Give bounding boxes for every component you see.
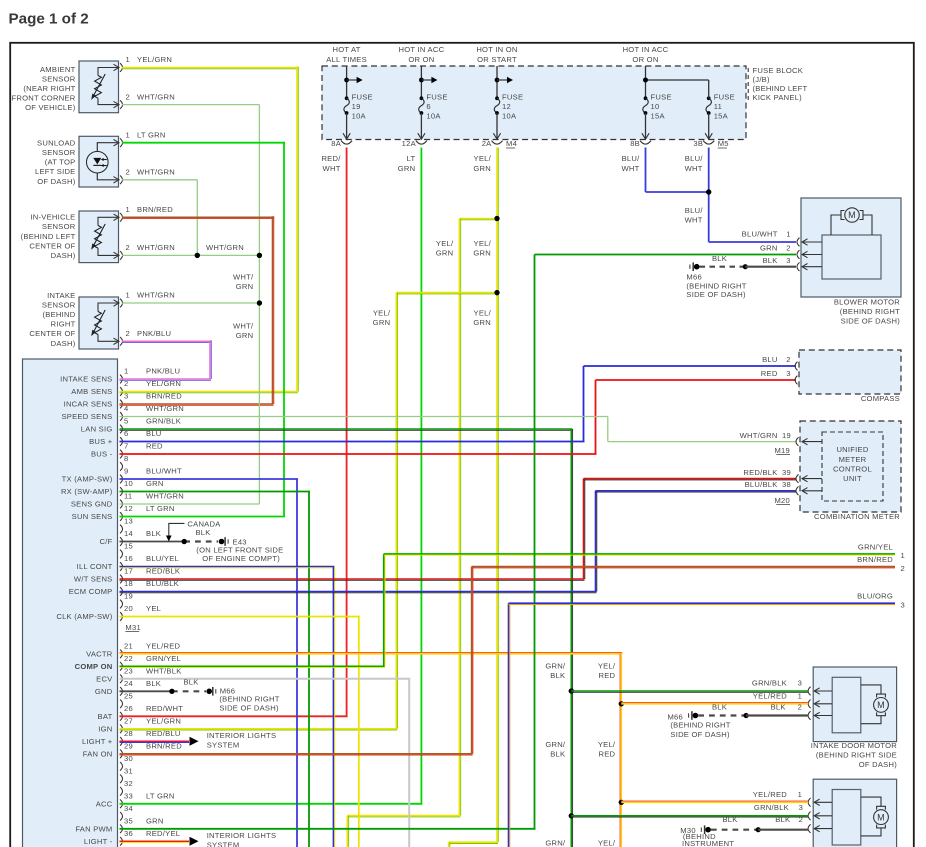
svg-text:21: 21 xyxy=(124,642,133,651)
wire PNK/BLU intake pin2 to control pin1 xyxy=(122,340,211,342)
svg-text:VACTR: VACTR xyxy=(86,649,113,658)
svg-text:C/F: C/F xyxy=(100,537,113,546)
svg-text:HOT IN ACC: HOT IN ACC xyxy=(398,45,444,54)
svg-text:BUS +: BUS + xyxy=(89,437,113,446)
svg-text:PNK/BLU: PNK/BLU xyxy=(137,329,171,338)
wire GRN/BLK to intake door motor pin3 xyxy=(571,690,808,692)
wire YEL/GRN main jog to page bottom xyxy=(449,841,498,843)
svg-text:LAN SIG: LAN SIG xyxy=(81,425,113,434)
svg-text:YEL/: YEL/ xyxy=(598,662,616,671)
svg-text:3: 3 xyxy=(799,803,803,812)
svg-text:2: 2 xyxy=(126,168,130,177)
svg-text:SENSOR: SENSOR xyxy=(42,300,76,309)
svg-text:2: 2 xyxy=(126,243,130,252)
connector arc at fuse block exit xyxy=(341,141,352,145)
blower pin 1 connector xyxy=(797,238,800,247)
control head pin 4 connector xyxy=(120,412,123,421)
wire YEL/RED to air mix door motor pin1 xyxy=(621,801,808,803)
svg-text:WHT/GRN: WHT/GRN xyxy=(137,243,175,252)
svg-text:YEL/RED: YEL/RED xyxy=(753,691,788,700)
svg-text:BLK: BLK xyxy=(762,256,777,265)
svg-text:2: 2 xyxy=(126,329,130,338)
svg-text:SENS GND: SENS GND xyxy=(71,500,113,509)
wire BLU/BLK control pin18 ECM COMP to meter pin38 xyxy=(120,591,597,593)
svg-text:RED/BLK: RED/BLK xyxy=(743,468,777,477)
svg-text:3: 3 xyxy=(798,679,802,688)
wire BLK control pin14 C/F with CANADA tap to E43 xyxy=(120,541,185,543)
svg-text:FUSE: FUSE xyxy=(714,92,735,101)
svg-text:RED: RED xyxy=(599,671,616,680)
svg-text:RED/: RED/ xyxy=(321,154,341,163)
svg-text:SIDE OF DASH): SIDE OF DASH) xyxy=(841,317,901,326)
svg-text:CENTER OF: CENTER OF xyxy=(29,329,75,338)
control head pin 27 connector xyxy=(120,725,123,734)
junction dot xyxy=(257,253,262,258)
control head pin 19 connector xyxy=(120,600,123,609)
svg-text:YEL/: YEL/ xyxy=(436,239,454,248)
hot feed + fuse 11 column xyxy=(707,96,711,100)
svg-text:5: 5 xyxy=(124,417,128,426)
svg-text:20: 20 xyxy=(124,604,133,613)
svg-text:6: 6 xyxy=(426,102,430,111)
junction dot YEL/RED intake door xyxy=(619,701,624,706)
svg-text:YEL/RED: YEL/RED xyxy=(146,642,181,651)
in-vehicle sensor xyxy=(79,211,119,263)
svg-text:FAN PWM: FAN PWM xyxy=(75,824,112,833)
svg-text:TX (AMP-SW): TX (AMP-SW) xyxy=(62,475,113,484)
svg-text:OR ON: OR ON xyxy=(632,55,658,64)
svg-text:8: 8 xyxy=(124,454,128,463)
wire BLU/WHT control pin9 TX down xyxy=(120,478,299,480)
control head pin 7 connector xyxy=(120,450,123,459)
svg-text:GRN: GRN xyxy=(473,248,491,257)
control head pin 2 connector xyxy=(120,387,123,396)
svg-text:IGN: IGN xyxy=(98,724,112,733)
svg-text:YEL: YEL xyxy=(146,604,161,613)
svg-text:HOT AT: HOT AT xyxy=(332,45,360,54)
svg-text:1: 1 xyxy=(126,55,130,64)
wire YEL/GRN branch1 jog to page bottom xyxy=(347,815,460,817)
svg-text:FUSE: FUSE xyxy=(352,92,373,101)
svg-text:BLU/WHT: BLU/WHT xyxy=(146,467,182,476)
svg-text:39: 39 xyxy=(782,468,791,477)
svg-text:WHT/GRN: WHT/GRN xyxy=(740,431,778,440)
control head pin 15 connector xyxy=(120,550,123,559)
svg-text:M: M xyxy=(848,210,856,220)
svg-text:M66: M66 xyxy=(686,273,702,282)
svg-text:GND: GND xyxy=(95,687,113,696)
svg-text:WHT/GRN: WHT/GRN xyxy=(206,243,244,252)
blower motor inner unit xyxy=(822,235,881,279)
svg-text:WHT: WHT xyxy=(621,164,639,173)
svg-text:UNIFIED: UNIFIED xyxy=(836,445,868,454)
wire GRN/BLK control pin5 mode bus xyxy=(120,428,573,430)
wire WHT/BLK control pin23 ECV down xyxy=(120,678,411,680)
wire GRN control pin10 RX down xyxy=(120,491,311,493)
wire BLU/YEL control pin16 ILL CONT down xyxy=(120,566,335,568)
svg-text:WHT/: WHT/ xyxy=(233,322,254,331)
svg-text:YEL/: YEL/ xyxy=(598,838,616,847)
control head pin 6 connector xyxy=(120,437,123,446)
svg-text:GRN: GRN xyxy=(236,331,254,340)
svg-text:2A: 2A xyxy=(482,139,492,148)
svg-text:BLU/: BLU/ xyxy=(685,206,704,215)
wire RED/BLK control pin17 W/T SENS to meter pin39 xyxy=(120,578,585,580)
control head pin 34 connector xyxy=(120,812,123,821)
wire YEL/GRN branch2 to control pin27 IGN xyxy=(395,293,397,729)
combination meter box xyxy=(800,421,901,512)
wire WHT/GRN in-vehicle pin2 with junctions xyxy=(122,254,259,256)
A/C control head box xyxy=(23,359,118,847)
control head pin 3 connector xyxy=(120,400,123,409)
svg-text:9: 9 xyxy=(124,467,128,476)
junction dot intake pin1 xyxy=(257,300,262,305)
svg-text:IN-VEHICLE: IN-VEHICLE xyxy=(30,213,75,222)
svg-text:GRN: GRN xyxy=(398,164,416,173)
svg-text:WHT/GRN: WHT/GRN xyxy=(146,492,184,501)
svg-text:38: 38 xyxy=(782,480,791,489)
wire GRN control pin35 FAN PWM to blower pin2 xyxy=(120,828,536,830)
wire RED/WHT fuse19 to control pin26 BAT xyxy=(346,148,348,717)
svg-text:1: 1 xyxy=(126,205,130,214)
svg-text:7: 7 xyxy=(124,442,128,451)
junction dot BLK xyxy=(744,713,749,718)
svg-text:COMPASS: COMPASS xyxy=(861,394,900,403)
svg-text:WHT/GRN: WHT/GRN xyxy=(137,168,175,177)
wire BLK control pin24 GND to M66 xyxy=(120,690,172,692)
wire YEL/GRN ambient pin1 to control pin2 xyxy=(122,67,298,69)
svg-text:15A: 15A xyxy=(651,111,666,120)
svg-text:2: 2 xyxy=(126,92,130,101)
meter pin 19 connector xyxy=(796,437,799,446)
svg-text:SIDE OF DASH): SIDE OF DASH) xyxy=(219,703,279,712)
svg-text:LT GRN: LT GRN xyxy=(146,792,175,801)
svg-text:26: 26 xyxy=(124,704,133,713)
control head pin 8 connector xyxy=(120,462,123,471)
wire BLU/ORG east exit 3 xyxy=(508,603,510,847)
svg-text:M: M xyxy=(877,812,885,822)
svg-text:19: 19 xyxy=(782,431,791,440)
svg-text:LT GRN: LT GRN xyxy=(146,504,175,513)
svg-text:SIDE OF DASH): SIDE OF DASH) xyxy=(670,730,730,739)
svg-text:31: 31 xyxy=(124,767,133,776)
svg-text:COMBINATION METER: COMBINATION METER xyxy=(814,512,900,521)
control head pin 22 connector xyxy=(120,662,123,671)
svg-text:16: 16 xyxy=(124,554,133,563)
svg-text:PNK/BLU: PNK/BLU xyxy=(146,367,180,376)
svg-text:LIGHT +: LIGHT + xyxy=(82,737,113,746)
svg-text:3B: 3B xyxy=(693,139,703,148)
svg-text:AMB SENS: AMB SENS xyxy=(71,387,112,396)
svg-text:BLU/ORG: BLU/ORG xyxy=(857,592,893,601)
svg-text:3: 3 xyxy=(786,369,790,378)
svg-text:(BEHIND LEFT: (BEHIND LEFT xyxy=(753,84,808,93)
svg-text:M5: M5 xyxy=(718,139,729,148)
svg-text:22: 22 xyxy=(124,654,133,663)
svg-text:SYSTEM: SYSTEM xyxy=(207,741,240,750)
svg-text:32: 32 xyxy=(124,779,133,788)
svg-text:METER: METER xyxy=(839,455,867,464)
svg-text:33: 33 xyxy=(124,792,133,801)
svg-text:FUSE: FUSE xyxy=(426,92,447,101)
ground connector E43 symbol xyxy=(219,539,225,545)
svg-text:BLK: BLK xyxy=(712,254,727,263)
compass pin 3 connector xyxy=(795,376,798,385)
wire WHT/GRN ambient pin2 down xyxy=(122,104,259,106)
junction dot YEL/GRN branch1 xyxy=(494,216,499,221)
svg-text:1: 1 xyxy=(901,551,905,560)
control head pin 33 connector xyxy=(120,800,123,809)
svg-text:Page 1 of 2: Page 1 of 2 xyxy=(9,11,89,28)
wire BRN/RED control pin29 FAN ON to east exit 2 xyxy=(120,753,473,755)
svg-text:RED/YEL: RED/YEL xyxy=(146,829,180,838)
svg-text:13: 13 xyxy=(124,517,133,526)
svg-text:LIGHT -: LIGHT - xyxy=(84,837,113,846)
unified meter control unit box xyxy=(822,432,883,501)
CANADA flag marker xyxy=(169,523,185,537)
control head pin 5 connector xyxy=(120,425,123,434)
junction dot BLK xyxy=(756,827,761,832)
svg-text:24: 24 xyxy=(124,679,133,688)
svg-text:DASH): DASH) xyxy=(51,251,76,260)
svg-text:ECV: ECV xyxy=(96,674,113,683)
control head pin 25 connector xyxy=(120,700,123,709)
svg-text:3: 3 xyxy=(901,601,905,610)
svg-text:27: 27 xyxy=(124,717,133,726)
intake sensor xyxy=(79,297,119,349)
connector arc at fuse block exit xyxy=(703,141,714,145)
svg-text:SUNLOAD: SUNLOAD xyxy=(37,138,76,147)
svg-text:BLK: BLK xyxy=(771,702,786,711)
svg-text:COMP ON: COMP ON xyxy=(75,662,113,671)
svg-text:11: 11 xyxy=(714,102,722,111)
wire LT GRN sunload pin1 to control pin12 xyxy=(122,142,285,144)
svg-text:10: 10 xyxy=(124,479,133,488)
wire GRN/YEL control pin22 COMP ON to east exit 1 xyxy=(120,665,385,667)
svg-text:19: 19 xyxy=(352,102,361,111)
svg-text:YEL/: YEL/ xyxy=(474,308,492,317)
svg-text:KICK PANEL): KICK PANEL) xyxy=(753,93,803,102)
svg-text:BLK: BLK xyxy=(195,528,210,537)
svg-text:GRN/BLK: GRN/BLK xyxy=(752,679,787,688)
svg-text:BLK: BLK xyxy=(712,702,727,711)
svg-text:8B: 8B xyxy=(630,139,640,148)
svg-text:INCAR SENS: INCAR SENS xyxy=(64,400,113,409)
svg-text:GRN/: GRN/ xyxy=(545,740,566,749)
control head pin 12 connector xyxy=(120,512,123,521)
svg-text:11: 11 xyxy=(124,492,132,501)
svg-text:34: 34 xyxy=(124,804,133,813)
svg-text:BLK: BLK xyxy=(722,815,737,824)
control head pin 29 connector xyxy=(120,750,123,759)
wire RED control pin7 BUS- to compass xyxy=(120,453,597,455)
wire WHT/GRN intake pin1 xyxy=(122,302,259,304)
wire YEL control pin20 CLK down xyxy=(120,616,360,618)
svg-text:GRN: GRN xyxy=(146,817,164,826)
wire RED/YEL control pin36 LIGHT- to interior lights xyxy=(120,840,190,842)
svg-text:SENSOR: SENSOR xyxy=(42,74,76,83)
svg-text:ECM COMP: ECM COMP xyxy=(69,587,113,596)
wire RED/BLU control pin28 LIGHT+ to interior lights xyxy=(120,740,190,742)
wire WHT/GRN sunload pin2 down xyxy=(122,179,197,181)
blower pin 3 connector + BLK ground wire xyxy=(797,262,800,271)
control head pin 23 connector xyxy=(120,675,123,684)
svg-text:GRN: GRN xyxy=(236,282,254,291)
svg-text:BLK: BLK xyxy=(146,529,161,538)
svg-text:UNIT: UNIT xyxy=(843,474,862,483)
svg-text:FRONT CORNER: FRONT CORNER xyxy=(11,94,75,103)
ambient sensor xyxy=(79,61,119,113)
svg-text:SUN SENS: SUN SENS xyxy=(72,512,113,521)
svg-text:(NEAR RIGHT: (NEAR RIGHT xyxy=(23,84,75,93)
wire GRN/BLK to air mix door motor pin3 xyxy=(571,815,808,817)
junction dot YEL/GRN branch2 xyxy=(494,290,499,295)
wire YEL/GRN branch1 vertical xyxy=(458,219,460,816)
svg-text:8A: 8A xyxy=(331,139,341,148)
svg-text:GRN/: GRN/ xyxy=(545,662,566,671)
svg-text:12: 12 xyxy=(502,102,511,111)
svg-text:1: 1 xyxy=(798,691,802,700)
svg-text:WHT/: WHT/ xyxy=(233,272,254,281)
svg-text:FAN ON: FAN ON xyxy=(83,749,113,758)
meter pin 39 connector xyxy=(796,474,799,483)
wire WHT/GRN vertical sens-gnd bus xyxy=(258,255,260,504)
svg-text:GRN: GRN xyxy=(473,164,491,173)
svg-text:AMBIENT: AMBIENT xyxy=(40,65,76,74)
svg-text:M4: M4 xyxy=(506,139,517,148)
svg-text:1: 1 xyxy=(126,291,130,300)
svg-text:14: 14 xyxy=(124,529,133,538)
control head pin 32 connector xyxy=(120,787,123,796)
connector arc at fuse block exit xyxy=(416,141,427,145)
control head pin 28 connector xyxy=(120,737,123,746)
svg-text:HOT IN ACC: HOT IN ACC xyxy=(623,45,669,54)
svg-text:WHT/GRN: WHT/GRN xyxy=(137,92,175,101)
svg-text:BRN/RED: BRN/RED xyxy=(857,555,893,564)
wire BRN/RED in-vehicle pin1 to control pin3 xyxy=(122,216,274,218)
junction dot xyxy=(195,253,200,258)
svg-text:RED: RED xyxy=(599,750,616,759)
svg-text:1: 1 xyxy=(124,367,128,376)
svg-text:(BEHIND RIGHT SIDE: (BEHIND RIGHT SIDE xyxy=(816,750,897,759)
svg-text:YEL/: YEL/ xyxy=(598,740,616,749)
svg-text:BLOWER MOTOR: BLOWER MOTOR xyxy=(834,298,900,307)
svg-text:BRN/RED: BRN/RED xyxy=(137,205,173,214)
svg-text:SPEED SENS: SPEED SENS xyxy=(61,412,112,421)
svg-text:RED: RED xyxy=(761,369,778,378)
control head pin 35 connector xyxy=(120,825,123,834)
svg-text:(BEHIND: (BEHIND xyxy=(43,310,76,319)
svg-text:GRN: GRN xyxy=(146,479,164,488)
svg-text:INSTRUMENT: INSTRUMENT xyxy=(682,839,734,847)
svg-text:15A: 15A xyxy=(714,111,729,120)
control head pin 9 connector xyxy=(120,475,123,484)
svg-text:(BEHIND RIGHT: (BEHIND RIGHT xyxy=(840,307,900,316)
svg-text:RIGHT: RIGHT xyxy=(51,320,76,329)
svg-text:FUSE BLOCK: FUSE BLOCK xyxy=(753,66,804,75)
wire BLU control pin6 BUS+ to compass xyxy=(120,441,585,443)
svg-text:10A: 10A xyxy=(352,111,367,120)
svg-text:SIDE OF DASH): SIDE OF DASH) xyxy=(686,290,746,299)
svg-text:BLK: BLK xyxy=(183,678,198,687)
control head pin 21 connector xyxy=(120,650,123,659)
svg-text:INTAKE: INTAKE xyxy=(47,291,75,300)
svg-text:LT GRN: LT GRN xyxy=(137,130,166,139)
svg-text:M31: M31 xyxy=(125,623,141,632)
svg-text:CLK (AMP-SW): CLK (AMP-SW) xyxy=(56,612,112,621)
junction dot GRN/BLK air mix xyxy=(569,813,574,818)
svg-text:25: 25 xyxy=(124,692,133,701)
svg-text:10: 10 xyxy=(651,102,660,111)
svg-text:BLU/: BLU/ xyxy=(685,154,704,163)
wire YEL/RED to intake door motor pin1 xyxy=(621,703,808,705)
svg-text:BLK: BLK xyxy=(550,750,565,759)
svg-text:LT: LT xyxy=(407,154,416,163)
svg-text:M19: M19 xyxy=(774,446,790,455)
svg-text:OR START: OR START xyxy=(477,55,517,64)
svg-text:HOT IN ON: HOT IN ON xyxy=(476,45,517,54)
svg-text:1: 1 xyxy=(798,790,802,799)
svg-text:YEL/GRN: YEL/GRN xyxy=(146,717,181,726)
blower pin 2 connector xyxy=(797,250,800,259)
svg-text:GRN: GRN xyxy=(473,318,491,327)
fuse block label tick xyxy=(747,68,749,101)
svg-text:CONTROL: CONTROL xyxy=(833,464,872,473)
svg-text:M: M xyxy=(877,700,885,710)
control head pin 17 connector xyxy=(120,575,123,584)
svg-text:W/T SENS: W/T SENS xyxy=(74,575,113,584)
junction dot BLU/WHT xyxy=(706,189,711,194)
svg-text:M20: M20 xyxy=(774,496,790,505)
svg-text:35: 35 xyxy=(124,817,133,826)
svg-text:3: 3 xyxy=(786,256,790,265)
svg-text:YEL/: YEL/ xyxy=(373,308,391,317)
svg-text:WHT: WHT xyxy=(685,216,703,225)
svg-text:YEL/GRN: YEL/GRN xyxy=(137,55,172,64)
svg-text:GRN/YEL: GRN/YEL xyxy=(146,654,181,663)
svg-text:BAT: BAT xyxy=(98,712,113,721)
control head pin 14 connector xyxy=(120,537,123,546)
control head pin 20 connector xyxy=(120,612,123,621)
ground connector M66 symbol xyxy=(206,689,212,695)
control head pin 30 connector xyxy=(120,762,123,771)
interior lights arrow xyxy=(190,737,199,746)
compass pin 2 connector xyxy=(795,362,798,371)
svg-text:INTAKE SENS: INTAKE SENS xyxy=(60,375,112,384)
control head pin 26 connector xyxy=(120,712,123,721)
svg-text:2: 2 xyxy=(786,244,790,253)
svg-text:YEL/: YEL/ xyxy=(474,154,492,163)
svg-text:2: 2 xyxy=(901,564,905,573)
svg-text:36: 36 xyxy=(124,829,133,838)
blower motor box xyxy=(801,198,901,297)
junction dot YEL/RED air mix xyxy=(619,800,624,805)
svg-text:GRN: GRN xyxy=(760,244,778,253)
svg-text:INTERIOR LIGHTS: INTERIOR LIGHTS xyxy=(207,831,277,840)
svg-text:BLK: BLK xyxy=(146,679,161,688)
svg-text:10A: 10A xyxy=(426,111,441,120)
svg-text:BLU/WHT: BLU/WHT xyxy=(742,229,778,238)
junction dot BLK xyxy=(182,539,187,544)
svg-text:CENTER OF: CENTER OF xyxy=(29,241,75,250)
meter pin 38 connector xyxy=(796,487,799,496)
junction dot GRN/BLK intake door xyxy=(569,688,574,693)
svg-text:SENSOR: SENSOR xyxy=(42,222,76,231)
sunload sensor xyxy=(79,136,119,187)
svg-text:1: 1 xyxy=(786,229,790,238)
control head pin 10 connector xyxy=(120,487,123,496)
control head pin 13 connector xyxy=(120,525,123,534)
